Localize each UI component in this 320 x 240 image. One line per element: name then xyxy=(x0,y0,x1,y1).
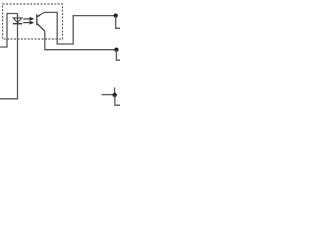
wire: emitter to node xyxy=(45,31,117,49)
wire: pin 2 exit right xyxy=(116,50,120,61)
wire: LED anode feed (left edge to LED top) xyxy=(0,14,18,48)
wire: stub above node xyxy=(114,88,116,95)
diode D1 (LED) xyxy=(13,14,22,24)
node (junction dot) pin 1 xyxy=(114,13,118,17)
wire: pin 3 exit right xyxy=(115,95,120,105)
wire: pin 1 exit right xyxy=(116,16,120,29)
light arrow (lower) xyxy=(23,21,34,25)
wire: LED cathode down and out left edge xyxy=(0,24,18,99)
node (junction dot) pin 3 xyxy=(113,93,117,97)
node (junction dot) pin 2 xyxy=(114,48,118,52)
transistor Q1 (phototransistor) xyxy=(37,12,45,31)
light arrow (upper) xyxy=(23,17,34,21)
wire: collector to node xyxy=(44,12,116,44)
wire: third terminal feed xyxy=(102,94,115,96)
optocoupler U1 dashed outline xyxy=(3,4,63,39)
